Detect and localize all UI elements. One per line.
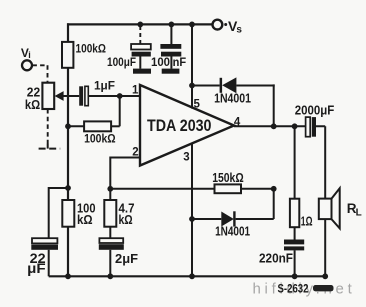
svg-text:nF: nF	[173, 55, 187, 69]
capacitor C7 220nF	[284, 240, 304, 251]
wire: D1 anode to output vertical	[236, 84, 274, 126]
wire: C2 to ground rail	[48, 250, 50, 276]
resistor R6 1Ω	[290, 199, 299, 228]
wire: pin 3 down to ground rail	[191, 143, 193, 276]
label +Vs	[224, 18, 242, 36]
svg-text:1N4001: 1N4001	[214, 91, 251, 105]
junction: pin 3 / D2 node	[189, 216, 195, 222]
wire: D1 row from pin5 node	[192, 85, 220, 87]
junction: output / diode-feedback vertical	[271, 123, 277, 129]
svg-text:1μF: 1μF	[94, 79, 115, 93]
wire: C7 to ground rail	[294, 250, 296, 276]
label RL	[347, 201, 362, 218]
junction: top rail / pin 5 branch	[189, 22, 195, 28]
junction: top rail / C3	[137, 22, 143, 28]
wire: top rail down to pin 5 node	[191, 24, 193, 108]
diode D2 1N4001 (arrow, pointing right)	[221, 212, 234, 227]
svg-text:100μF: 100μF	[107, 55, 136, 69]
wire: pin 2 stub to feedback node	[110, 158, 140, 189]
wire: D2 row from pin3 node	[192, 218, 221, 220]
wire: pin 2 node down to R4	[109, 189, 111, 200]
wire: feedback row to R5	[110, 188, 214, 190]
svg-text:kΩ: kΩ	[25, 97, 40, 112]
capacitor C3 100μF (supply decoupling)	[131, 44, 151, 57]
wire: bottom ground rail	[49, 275, 326, 277]
wire: wiper to C1 (crosses bias column, no junction)	[63, 95, 79, 97]
svg-text:2μF: 2μF	[115, 251, 138, 266]
resistor R3 100kΩ (lower, vertical)	[62, 200, 74, 227]
wire: D2 cathode up to feedback node	[236, 189, 274, 219]
junction: bias node at C2 branch	[65, 185, 71, 191]
wire: bias node to R2	[68, 125, 84, 127]
wire: dashed potentiometer bottom to ground	[47, 109, 49, 144]
redacted mark right of S-2632	[313, 285, 334, 291]
svg-text:220nF: 220nF	[259, 250, 293, 265]
wire: R2 to pin1 node vertical	[111, 125, 120, 127]
wire: left bias column vertical (top rail to R1)	[67, 23, 69, 42]
svg-text:L: L	[356, 208, 362, 219]
terminal +Vs	[213, 20, 223, 30]
junction: ground rail / pin 3	[189, 273, 195, 279]
ground bar below C4	[162, 69, 180, 74]
junction: feedback/output vertical	[271, 186, 277, 192]
wire: stem rail to C4	[170, 24, 172, 44]
wire: bias node to C2 22μF	[49, 188, 68, 238]
resistor R4 4.7kΩ	[104, 200, 116, 227]
svg-text:S-2632: S-2632	[278, 282, 309, 296]
label 4.7 kΩ (R4)	[119, 201, 135, 227]
diode D2 1N4001 (cathode bar)	[233, 211, 235, 226]
resistor R5 150kΩ (feedback)	[215, 184, 242, 193]
wire: C3 to ground bar	[139, 57, 141, 69]
input terminal Vi	[22, 60, 32, 70]
wire: speaker to ground rail	[324, 219, 326, 276]
wire: dashed stem rail to C3	[139, 26, 141, 44]
wire: C1 to op-amp pin 1	[88, 95, 140, 97]
svg-text:kΩ: kΩ	[119, 213, 133, 227]
svg-text:1N4001: 1N4001	[215, 224, 250, 238]
wire: R6 to C7	[294, 227, 296, 239]
ground (dashed) below potentiometer	[39, 144, 61, 149]
junction: ground rail / speaker	[322, 273, 328, 279]
svg-text:100: 100	[151, 55, 170, 69]
capacitor C5 2μF	[99, 238, 124, 250]
svg-text:μF: μF	[27, 261, 45, 276]
junction: ground rail / C5	[107, 273, 113, 279]
capacitor C2 22μF	[31, 238, 58, 250]
resistor R1 100kΩ (top, vertical)	[62, 42, 73, 68]
speaker RL driver box	[319, 199, 332, 220]
wire: output row pin 4 to C6	[234, 125, 306, 127]
junction: pin 2 feedback node	[107, 186, 113, 192]
junction: top rail / C4	[169, 22, 175, 28]
label Vi	[21, 46, 31, 60]
wire: R4 to C5	[109, 227, 111, 238]
wire: C4 to ground bar	[170, 57, 172, 69]
capacitor C6 2000μF (output)	[306, 117, 316, 137]
op-amp U1 TDA 2030 triangle	[140, 85, 234, 166]
junction: pin 5 / D1 node	[189, 83, 195, 89]
svg-text:1Ω: 1Ω	[301, 213, 313, 228]
svg-text:s: s	[236, 25, 242, 36]
wire: dashed input from Vi to potentiometer top	[32, 65, 47, 82]
junction: output / Zobel branch	[292, 123, 298, 129]
junction: ground rail / R3	[65, 273, 71, 279]
svg-text:i: i	[28, 50, 31, 60]
speaker RL cone	[332, 188, 340, 228]
ground bar below C3	[133, 69, 151, 74]
svg-text:3: 3	[183, 151, 189, 163]
junction: bias node at R2	[65, 123, 71, 129]
wire: top +Vs supply rail	[67, 23, 212, 25]
svg-text:kΩ: kΩ	[77, 213, 93, 227]
wire: C6 to speaker	[316, 126, 325, 198]
label 100 kΩ (R3)	[77, 201, 96, 227]
wire: pin 1 node down to R2	[119, 96, 121, 126]
svg-text:5: 5	[194, 99, 201, 111]
wire: left bias column vertical (R1 to lower R3)	[67, 68, 69, 200]
label 22 kΩ (P1)	[25, 85, 40, 112]
svg-text:TDA 2030: TDA 2030	[147, 116, 212, 135]
diode D1 1N4001 (cathode bar)	[220, 78, 223, 93]
capacitor C1 1μF (coupling)	[79, 86, 88, 105]
wire: Zobel branch down to R6	[294, 126, 296, 198]
junction: ground rail / C7	[292, 273, 298, 279]
diode D1 1N4001 (arrow, pointing left)	[222, 77, 236, 93]
junction: pin 1 node	[117, 93, 123, 99]
label 100 nF (C4)	[151, 55, 186, 69]
svg-text:100kΩ: 100kΩ	[84, 131, 116, 145]
potentiometer P1 wiper arrow	[55, 91, 64, 101]
label 22 μF (C2)	[27, 251, 45, 276]
potentiometer P1 22kΩ body	[42, 83, 54, 109]
svg-text:150kΩ: 150kΩ	[212, 171, 244, 185]
svg-text:2000μF: 2000μF	[295, 104, 335, 118]
wire: R5 to output branch vertical	[241, 188, 274, 190]
capacitor C4 100nF (supply decoupling)	[160, 44, 181, 57]
wire: left bias column vertical (R3 to ground rail)	[67, 227, 69, 277]
resistor R2 100kΩ (horizontal)	[84, 121, 111, 131]
svg-text:1: 1	[132, 84, 139, 96]
wire: C5 to ground rail	[109, 250, 111, 276]
svg-text:100kΩ: 100kΩ	[76, 42, 107, 56]
